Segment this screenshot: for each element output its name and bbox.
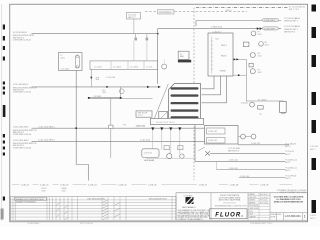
svg-text:TB-1: TB-1 (215, 39, 219, 41)
terminal rail 4 (171, 109, 199, 111)
svg-text:1001: 1001 (61, 57, 65, 59)
svg-text:SHT 2: SHT 2 (285, 146, 290, 148)
svg-text:1-JB-001: 1-JB-001 (213, 31, 222, 33)
wire drops to cable band (134, 41, 147, 61)
cable tag lozenge 2 (263, 27, 279, 30)
svg-text:3 TYP: 3 TYP (138, 115, 144, 117)
LT-1001 tag text (61, 55, 69, 70)
wire W3 (32, 86, 161, 88)
dashed line tag box (158, 10, 175, 14)
svg-text:FY 1001B: FY 1001B (258, 99, 267, 101)
svg-text:1001: 1001 (258, 34, 262, 36)
interlock square (243, 42, 249, 47)
svg-text:1-MC-001: 1-MC-001 (136, 125, 147, 127)
right margin tiny notes (310, 146, 319, 220)
svg-text:1-CBL-1004: 1-CBL-1004 (140, 140, 150, 142)
terminal rail 5 (171, 116, 199, 118)
svg-text:TO 1-DCS: TO 1-DCS (285, 151, 295, 153)
approvals column (248, 193, 270, 220)
wire riser x157 (157, 29, 159, 84)
title text (274, 195, 304, 203)
svg-text:1-CBL-01: 1-CBL-01 (21, 184, 30, 186)
svg-text:1-C-1001: 1-C-1001 (94, 66, 102, 68)
wire R5 (239, 177, 285, 179)
svg-text:C.D. 01-01: C.D. 01-01 (260, 197, 268, 199)
JB-001 terminal marks (211, 41, 214, 69)
svg-text:DESIGN: DESIGN (249, 200, 256, 202)
wire R4 (216, 169, 285, 171)
wire W1 drop tag A (136, 34, 147, 38)
junction box JB-002 (205, 126, 239, 145)
highlighted pair wire (89, 97, 122, 99)
switch LSL-1001 bubble (120, 89, 125, 94)
footer zone labels (21, 184, 270, 186)
title above text (277, 189, 307, 194)
isolator square with diagonal (159, 112, 168, 121)
wire 3 end label (284, 25, 300, 33)
svg-text:1-CBL-103: 1-CBL-103 (251, 143, 260, 145)
svg-text:BAR: BAR (180, 55, 185, 58)
svg-text:SHT 1: SHT 1 (310, 218, 317, 220)
svg-text:PROJ ENGR: PROJ ENGR (249, 205, 259, 207)
svg-text:1001: 1001 (258, 72, 262, 74)
svg-text:CONN DWG 1-XX-04: CONN DWG 1-XX-04 (13, 147, 31, 149)
svg-text:1-XX-800-001: 1-XX-800-001 (285, 214, 302, 218)
wire W-top to DCS (158, 28, 281, 30)
svg-text:1-LSL-CBL: 1-LSL-CBL (106, 77, 115, 79)
bubble FIC (250, 53, 255, 58)
terminal rail 2 (171, 94, 199, 96)
wire riser x246 (245, 59, 247, 101)
node J1 (157, 33, 159, 35)
svg-text:CHECKED: CHECKED (249, 197, 258, 199)
control valve body (280, 101, 287, 112)
terminal stack cabinet (169, 84, 201, 120)
wire W2 (upper right) (196, 20, 281, 22)
svg-text:ENGINEERING AND CONSTRUCTION: ENGINEERING AND CONSTRUCTION (215, 205, 247, 208)
svg-text:CONSENT OF SAUDI ARAMCO.: CONSENT OF SAUDI ARAMCO. (178, 218, 204, 221)
svg-text:TO 1-MCC-01: TO 1-MCC-01 (285, 159, 297, 161)
left cable label 1 (13, 32, 35, 42)
cable tag lozenge 1 (263, 18, 279, 21)
svg-text:1-CBL-104: 1-CBL-104 (229, 160, 238, 162)
left cable label 4 (13, 140, 37, 150)
flow arrows on W3 (147, 86, 161, 88)
top DCS dash-dot highway line (196, 7, 288, 9)
svg-text:1-LT-1001: 1-LT-1001 (61, 68, 69, 70)
title block outer (176, 193, 308, 220)
tag box riser (133, 19, 135, 34)
bottom outside stamps (28, 223, 273, 225)
svg-text:1-PAIR-0001: 1-PAIR-0001 (211, 26, 223, 29)
svg-text:CONN DWG 1-XX-02: CONN DWG 1-XX-02 (13, 92, 31, 94)
svg-text:1-CBL-04: 1-CBL-04 (88, 184, 97, 186)
grounding bubble (162, 64, 167, 69)
svg-text:SEG-1: SEG-1 (226, 10, 233, 12)
second dashed signal line (145, 11, 247, 13)
node J3 (75, 127, 77, 129)
right ruler tick marks (312, 5, 317, 214)
marshalling riser (195, 125, 216, 162)
footer sub notes (42, 187, 68, 192)
system cable tray long box (151, 118, 204, 124)
bubble FV (250, 69, 255, 74)
wire 2 end label (284, 17, 300, 23)
svg-text:ALISO VIEJO CALIFORNIA: ALISO VIEJO CALIFORNIA (219, 199, 242, 202)
barrier icon square (178, 51, 189, 59)
emblem (186, 197, 194, 204)
title bottom cells (270, 213, 308, 221)
svg-text:TO 1-DCS-CAB-01: TO 1-DCS-CAB-01 (284, 17, 300, 20)
svg-text:FLUOR CONTRACT NO. 000000: FLUOR CONTRACT NO. 000000 (280, 191, 306, 194)
wire W1 (32, 33, 158, 35)
svg-text:ISSUED FOR DESIGN: ISSUED FOR DESIGN (16, 202, 36, 204)
damper X symbol (205, 151, 210, 155)
valve wire tags (241, 99, 268, 116)
svg-text:UTILITIES AND CO-GEN (10TH): UTILITIES AND CO-GEN (10TH) (274, 195, 304, 198)
left margin ruler line (1, 4, 3, 221)
svg-text:PAIR 2: PAIR 2 (221, 55, 227, 58)
staircase wire S3 (202, 76, 227, 103)
svg-text:PAIR 1: PAIR 1 (221, 44, 227, 47)
svg-text:1-CBL-05: 1-CBL-05 (118, 184, 127, 186)
svg-text:COMPANY: COMPANY (184, 194, 194, 197)
svg-text:1-CBL-1003-PAIR-1: 1-CBL-1003-PAIR-1 (38, 126, 55, 129)
svg-text:SHT 2 OF 2: SHT 2 OF 2 (289, 9, 301, 11)
notes paragraph (178, 209, 210, 221)
staircase wire S2 (202, 76, 221, 95)
footer zone line (12, 183, 292, 185)
FLUOR logo box (210, 209, 248, 219)
svg-text:G.H. 01-01: G.H. 01-01 (260, 202, 268, 204)
wire W4 branch (119, 87, 121, 98)
fb tiny box 1 (164, 146, 169, 150)
displacer element (75, 56, 79, 69)
svg-text:1-JB-002: 1-JB-002 (241, 103, 249, 105)
svg-text:PLOT 01-01-01: PLOT 01-01-01 (80, 223, 93, 225)
svg-text:SEE NOTE 4: SEE NOTE 4 (284, 32, 295, 34)
wire R2 (210, 152, 285, 154)
io bubble 2 (180, 154, 184, 158)
svg-text:CONN DWG 1-XX-01: CONN DWG 1-XX-01 (13, 40, 31, 42)
svg-text:1-CBL-105: 1-CBL-105 (229, 168, 238, 170)
top tag box TB-A (127, 13, 141, 20)
svg-text:TB-100 TB-101 TB-102: TB-100 TB-101 TB-102 (156, 122, 175, 124)
valve feed wire (246, 100, 283, 103)
field / cabinet boundary dashed vertical (193, 8, 195, 181)
JB-001 terminal labels (215, 39, 227, 73)
svg-text:1-P-1001: 1-P-1001 (94, 96, 102, 98)
left cable label 3 (13, 127, 37, 137)
X leader (198, 147, 205, 151)
stack feed diagonal (153, 84, 168, 122)
svg-text:SHT 2: SHT 2 (285, 154, 290, 156)
spare arrows (234, 58, 239, 60)
svg-text:1-CBL-07: 1-CBL-07 (199, 184, 208, 186)
svg-text:P.M.T.: P.M.T. (249, 211, 254, 213)
tray drop wires (153, 131, 180, 154)
spare pair wire (233, 58, 246, 60)
svg-text:FLUOR.: FLUOR. (215, 212, 244, 218)
svg-text:REV DESCRIPTION: REV DESCRIPTION (88, 198, 106, 200)
node J2 (238, 74, 240, 76)
svg-text:1-CBL-102: 1-CBL-102 (208, 140, 217, 142)
transmitter LT-1001 box (59, 53, 83, 71)
svg-text:1-CPU-01: 1-CPU-01 (144, 153, 152, 155)
barrier rail dark (178, 60, 191, 63)
solenoid aux box (258, 106, 264, 109)
junction box JB-001 (208, 33, 233, 76)
svg-text:1001: 1001 (258, 56, 262, 58)
solenoid bubble (250, 102, 255, 107)
svg-text:SEE NOTE 5: SEE NOTE 5 (228, 151, 239, 153)
svg-text:1-CBL-106: 1-CBL-106 (240, 176, 249, 178)
signature slashes (57, 200, 120, 220)
svg-text:AREA 100 INSTRUMENTATION: AREA 100 INSTRUMENTATION (274, 201, 304, 204)
left cable label 2 (13, 84, 37, 94)
svg-text:1-DCS-001: 1-DCS-001 (144, 160, 156, 162)
svg-text:1-FT-1001-ELEC: 1-FT-1001-ELEC (13, 32, 28, 34)
svg-text:LLI DIAGRAM LOOP 1001: LLI DIAGRAM LOOP 1001 (276, 198, 301, 201)
riser jog to footer (76, 165, 88, 181)
svg-text:1-CBL-09: 1-CBL-09 (260, 184, 269, 186)
svg-text:TO 1-MCC-01: TO 1-MCC-01 (285, 168, 297, 170)
wire W6 (32, 127, 205, 129)
cable schedule band (90, 61, 158, 70)
JB-002 plate 2 (207, 138, 226, 144)
bubble pair right of JB-002 (241, 134, 246, 139)
svg-text:1: 1 (304, 215, 306, 219)
svg-text:1-XX-800-001 SHT 1 OF 2: 1-XX-800-001 SHT 1 OF 2 (250, 223, 272, 225)
bubble FE (259, 42, 264, 47)
left ruler tick marks (1, 25, 6, 220)
tray down arrows (151, 127, 181, 130)
svg-text:1-CBL-03: 1-CBL-03 (60, 184, 69, 186)
svg-text:NONE: NONE (271, 217, 276, 219)
svg-text:SAUDI ARAMCO: SAUDI ARAMCO (182, 206, 196, 209)
svg-text:SHT 2: SHT 2 (285, 178, 290, 180)
fluor address (219, 194, 242, 201)
JB-001 internal terminal rail (211, 37, 213, 75)
svg-text:TERM 01 SHT 2: TERM 01 SHT 2 (284, 21, 298, 23)
node J-LSL (106, 86, 108, 88)
svg-text:CHIEF ENGR: CHIEF ENGR (249, 208, 260, 210)
svg-text:TO 1-JB-003: TO 1-JB-003 (285, 143, 296, 145)
top highway end label (289, 6, 307, 11)
svg-text:1-XX-1: 1-XX-1 (310, 215, 317, 217)
svg-text:REV DESCRIPTION: REV DESCRIPTION (149, 198, 167, 200)
svg-text:1001: 1001 (265, 44, 269, 46)
svg-text:1-CBL-06: 1-CBL-06 (148, 184, 157, 186)
JB-002 plate 1 (207, 128, 226, 134)
terminal rail 1 (171, 87, 199, 89)
svg-text:1-CBL-02: 1-CBL-02 (40, 184, 49, 186)
svg-text:1-ZSC-1001-ELEC: 1-ZSC-1001-ELEC (13, 127, 30, 129)
svg-text:1-DCS-SEG-1: 1-DCS-SEG-1 (159, 12, 173, 14)
svg-text:1-CBL-0001: 1-CBL-0001 (264, 20, 276, 22)
svg-text:1-C-04: 1-C-04 (146, 66, 152, 68)
svg-text:CONN DWG 1-XX-03: CONN DWG 1-XX-03 (13, 134, 31, 136)
svg-text:1-CBL-1004-PAIR-1: 1-CBL-1004-PAIR-1 (38, 139, 55, 142)
tiny seal circle (96, 77, 99, 80)
svg-text:1-C-1002: 1-C-1002 (113, 66, 121, 68)
continuation arrows on W-top (257, 27, 262, 30)
terminal rail 3 (171, 102, 199, 104)
io bubble (167, 154, 172, 159)
svg-text:SHT 2: SHT 2 (285, 170, 290, 172)
aux square (249, 63, 253, 67)
svg-text:TERM 02 SHT 2: TERM 02 SHT 2 (284, 29, 298, 31)
svg-text:1-ZSO-1001-ELEC: 1-ZSO-1001-ELEC (13, 140, 30, 142)
staircase wire S1 (202, 76, 215, 89)
svg-text:TO 1-DCS-NET-01: TO 1-DCS-NET-01 (289, 6, 307, 8)
svg-text:1001: 1001 (102, 92, 106, 94)
svg-text:1-CBL-101: 1-CBL-101 (208, 131, 217, 133)
svg-text:HART PT: HART PT (128, 16, 137, 19)
revision table (11, 197, 177, 221)
svg-text:TO 1-UPS-01: TO 1-UPS-01 (285, 176, 296, 178)
fb tiny box 2 (178, 146, 183, 150)
dcs cabinet rounded box (142, 149, 159, 158)
svg-text:ISSUED FOR CONSTRUCTION: ISSUED FOR CONSTRUCTION (16, 199, 44, 201)
svg-text:1-C-1003: 1-C-1003 (130, 66, 138, 68)
io bus line (146, 157, 194, 159)
instrument bubble FY-1001 (251, 31, 256, 36)
shield wire (233, 74, 246, 76)
transmitter riser wire (75, 71, 77, 165)
wire R1 (238, 144, 289, 146)
svg-text:SHT 1: SHT 1 (310, 149, 317, 151)
svg-text:1-XX-001: 1-XX-001 (310, 146, 319, 148)
inline terminal on drop (109, 125, 113, 128)
svg-text:1-CBL-0002: 1-CBL-0002 (264, 28, 276, 30)
svg-text:SHT 2: SHT 2 (285, 162, 290, 164)
svg-text:TO 1-DCS-CAB-01: TO 1-DCS-CAB-01 (284, 25, 300, 28)
svg-text:X-1001-DWG: X-1001-DWG (28, 223, 40, 225)
switch feed drop (90, 69, 92, 87)
svg-text:E.F. 01-01: E.F. 01-01 (260, 200, 267, 202)
row 1 description (15, 198, 47, 201)
svg-text:SPARE: SPARE (220, 70, 227, 73)
wire W7 (32, 140, 205, 142)
svg-text:1-LSL-1001-ELEC: 1-LSL-1001-ELEC (13, 84, 29, 86)
wire R3 (216, 160, 285, 162)
note box NB1 (136, 111, 152, 117)
wire W5 (121, 98, 153, 100)
svg-text:1-CBL-08: 1-CBL-08 (230, 184, 239, 186)
marshalling drop vertical (110, 99, 112, 158)
